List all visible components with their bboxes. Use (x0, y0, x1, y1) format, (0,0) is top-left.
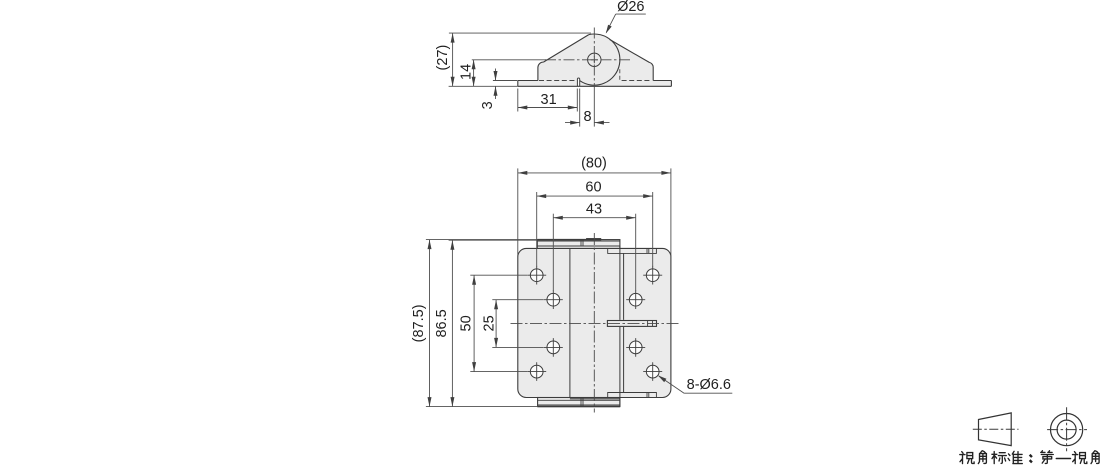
hole top-right outer (646, 269, 659, 282)
end view horizontal centerline (1047, 429, 1087, 431)
frustum side view (979, 413, 1012, 446)
dim line 25 (495, 300, 497, 348)
pivot small circle (588, 53, 601, 66)
char DI (ordinal) (1041, 451, 1054, 464)
svg-text:25: 25 (482, 315, 498, 331)
pivot center cross (591, 56, 598, 63)
svg-text:(80): (80) (581, 156, 607, 172)
14 arrows (472, 60, 476, 70)
char JIAO (angle) second (1091, 451, 1099, 464)
side profile outline (518, 35, 672, 87)
arrowheads top view (451, 25, 612, 125)
end view vertical centerline (1066, 407, 1068, 451)
ext line row2 (492, 299, 543, 301)
hole lower-right inner (629, 341, 642, 354)
(27) arrows (451, 33, 455, 43)
bottom knuckle thick bottom segment (538, 406, 620, 408)
60 arrows (537, 194, 547, 198)
dim line (27) (452, 33, 454, 86)
31 arrows (518, 106, 528, 110)
leader O26 (606, 14, 646, 32)
vertical centerline of pivot (593, 28, 595, 89)
char YI (one) (1056, 458, 1070, 460)
vertical centerline front view (593, 233, 595, 413)
knuckle circle O26 arc (580, 34, 620, 85)
ext line 43 left (552, 214, 554, 291)
25 arrows (494, 300, 498, 310)
top knuckle slot edges (581, 240, 583, 247)
50 arrows (472, 275, 476, 285)
ext line top 87.5 (426, 239, 537, 241)
hidden edge dashes under boss right (622, 80, 652, 82)
hinge plate filled body with rounded corners (518, 248, 671, 397)
svg-text:(87.5): (87.5) (411, 304, 427, 342)
middle latch tab (607, 321, 656, 327)
front view dimension thin lines (426, 168, 732, 406)
char fullwidth colon (1029, 456, 1032, 462)
right leaf recessed tab top (608, 248, 657, 253)
(80) arrows (518, 171, 528, 175)
middle latch tab inner edges (648, 321, 653, 327)
dim line (87.5) (429, 240, 431, 407)
43 arrows (553, 216, 563, 220)
hole bottom-left outer (530, 365, 543, 378)
ext line row4 (470, 371, 527, 373)
dim line (80) (518, 172, 671, 174)
top knuckle tab (537, 240, 620, 249)
svg-text:14: 14 (459, 64, 475, 80)
hole upper-left inner (547, 293, 560, 306)
extension lines 31 (518, 89, 578, 112)
hinge side profile filled body (518, 34, 672, 86)
caption: CJK characters drawn as strokes (960, 451, 1099, 464)
arrowheads front view (428, 171, 671, 407)
top knuckle inner line (537, 240, 620, 242)
ext line 43 right (635, 214, 637, 291)
hole top-left outer (530, 269, 543, 282)
3 arrows (494, 71, 498, 81)
86.5 arrows (450, 240, 454, 250)
extension line 8 right on slot (579, 89, 581, 127)
ext line 60 right (652, 192, 654, 267)
extension baseline (449, 85, 518, 87)
bottom knuckle slot edges (581, 398, 583, 407)
extension line 14 (472, 59, 546, 61)
dim line 86.5 (451, 240, 453, 406)
slot edges with curled tab (577, 78, 579, 86)
horizontal centerline front view (511, 322, 679, 324)
top knuckle raised lip (586, 238, 601, 240)
ext line bottom (426, 406, 538, 408)
leader 8-O6.6 (659, 376, 733, 393)
char JIAO (angle) (978, 451, 986, 464)
frustum centerline (973, 428, 1019, 430)
hole upper-right inner (629, 293, 642, 306)
dim line 8 outside segments (565, 122, 610, 124)
hole bottom-right outer (646, 365, 659, 378)
char SHI (view) (960, 452, 974, 464)
hidden edge dashes under boss left (539, 80, 576, 82)
svg-text:86.5: 86.5 (434, 309, 450, 337)
dim line 60 (537, 195, 653, 197)
horizontal centerline of pivot (545, 59, 632, 61)
frustum end view inner circle (1057, 420, 1076, 439)
svg-text:60: 60 (585, 180, 601, 196)
(87.5) arrows (428, 240, 432, 250)
top view dimension thin lines (449, 14, 646, 127)
dim line 14 (473, 60, 475, 87)
hole center marks (527, 266, 662, 381)
hidden vertical edge (619, 69, 621, 80)
dim line 3 outside segments (495, 69, 497, 100)
dim line 43 (553, 217, 635, 219)
svg-text:8: 8 (584, 109, 592, 125)
char ZHUN (accurate) (1008, 451, 1022, 463)
8 mounting holes 8-O6.6 (530, 269, 659, 378)
top knuckle lower edge (537, 245, 620, 247)
svg-text:31: 31 (541, 92, 557, 108)
leaf overlap edge line B (623, 253, 625, 392)
O26 leader arrow (606, 25, 612, 34)
char BIAO (standard) (992, 452, 1006, 464)
bottom knuckle inner lines (538, 400, 620, 405)
leaf overlap edge line A (619, 246, 621, 407)
char SHI (view) second (1073, 452, 1087, 464)
extension line top (27) (449, 32, 591, 34)
ext line (80) left (517, 168, 519, 256)
ext line (80) right (670, 168, 672, 256)
top view dimension texts (435, 0, 645, 125)
svg-text:50: 50 (459, 315, 475, 331)
dim line 31 (518, 107, 578, 109)
top knuckle thick top segment (537, 239, 601, 241)
ext line row3 (492, 346, 543, 348)
svg-text:(27): (27) (435, 45, 451, 71)
svg-text:3: 3 (480, 101, 496, 109)
right leaf recessed tab bottom (608, 393, 657, 398)
svg-text:43: 43 (586, 202, 602, 218)
leader arrow 8-O6.6 (658, 375, 667, 382)
hole lower-left inner (547, 341, 560, 354)
ext line 60 left (536, 192, 538, 267)
ext line top 86.5 (449, 239, 538, 241)
bottom knuckle tab (538, 398, 620, 407)
frustum end view outer circle (1051, 414, 1083, 446)
svg-text:8-Ø6.6: 8-Ø6.6 (687, 377, 731, 393)
dim line 50 (473, 275, 475, 371)
ext line row1 (470, 274, 527, 276)
8 arrows (570, 121, 580, 125)
svg-text:Ø26: Ø26 (617, 0, 644, 15)
slot gap in base plate (577, 79, 579, 87)
bottom knuckle cap line (570, 398, 620, 400)
pivot column left edge (569, 248, 571, 397)
front view dimension texts (411, 156, 731, 394)
extension line 3 top (493, 80, 517, 82)
